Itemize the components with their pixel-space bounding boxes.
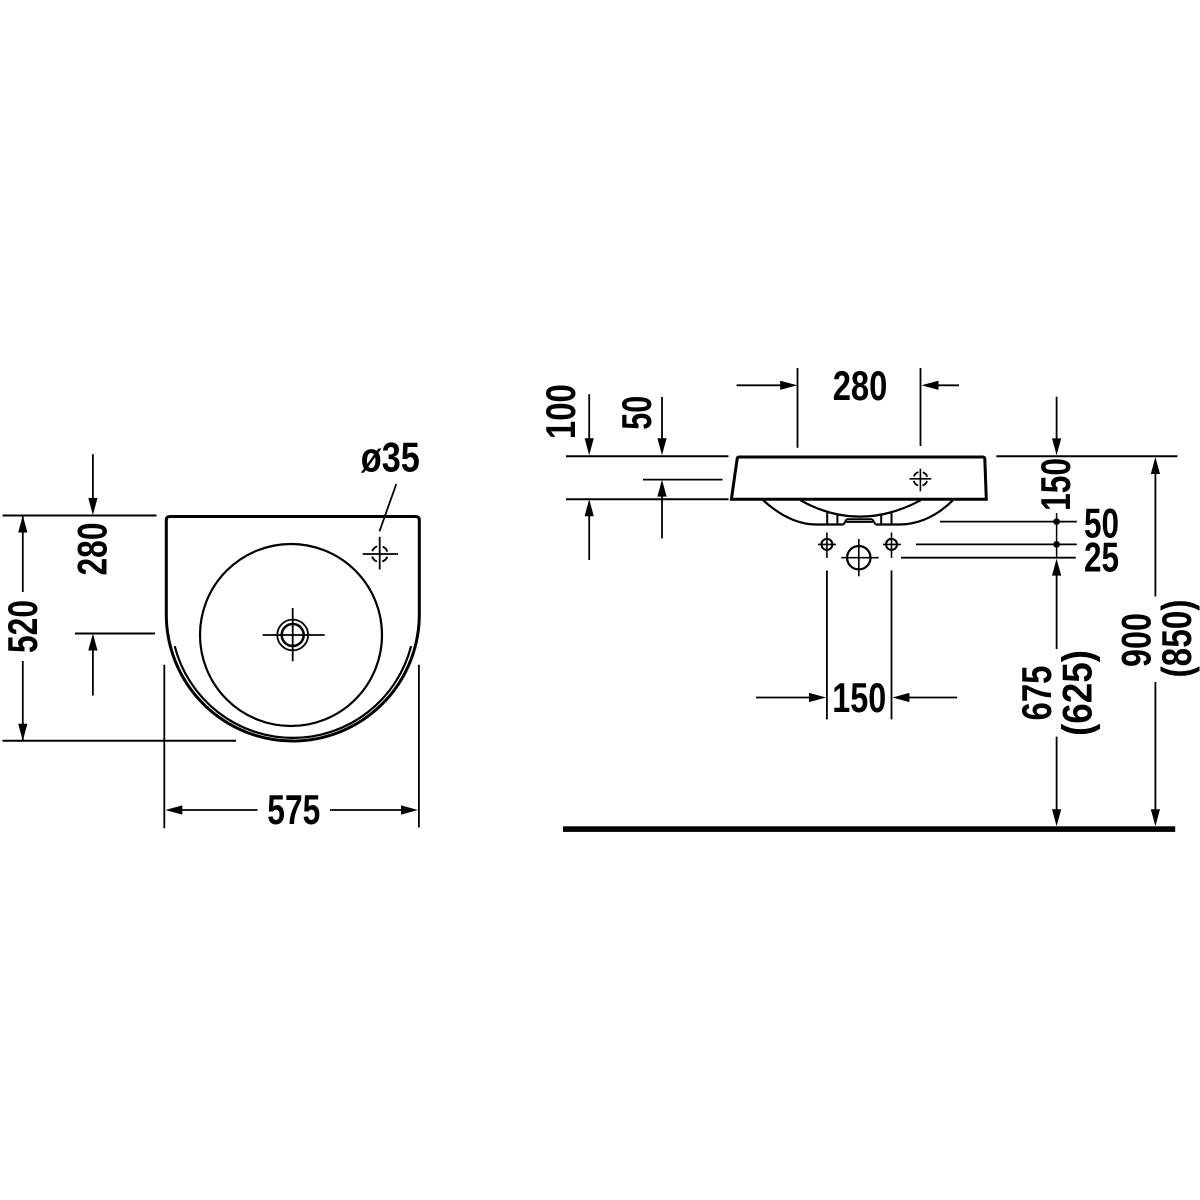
svg-text:280: 280 xyxy=(69,523,116,576)
svg-text:50: 50 xyxy=(613,396,660,430)
svg-text:(850): (850) xyxy=(1153,600,1200,678)
svg-text:150: 150 xyxy=(1032,458,1079,511)
svg-text:520: 520 xyxy=(0,600,46,653)
svg-text:(625): (625) xyxy=(1053,650,1100,736)
svg-text:150: 150 xyxy=(832,674,886,721)
svg-text:ø35: ø35 xyxy=(361,434,420,481)
svg-text:280: 280 xyxy=(833,362,888,409)
svg-text:100: 100 xyxy=(537,384,584,439)
svg-text:25: 25 xyxy=(1084,533,1119,580)
svg-text:575: 575 xyxy=(267,786,320,833)
